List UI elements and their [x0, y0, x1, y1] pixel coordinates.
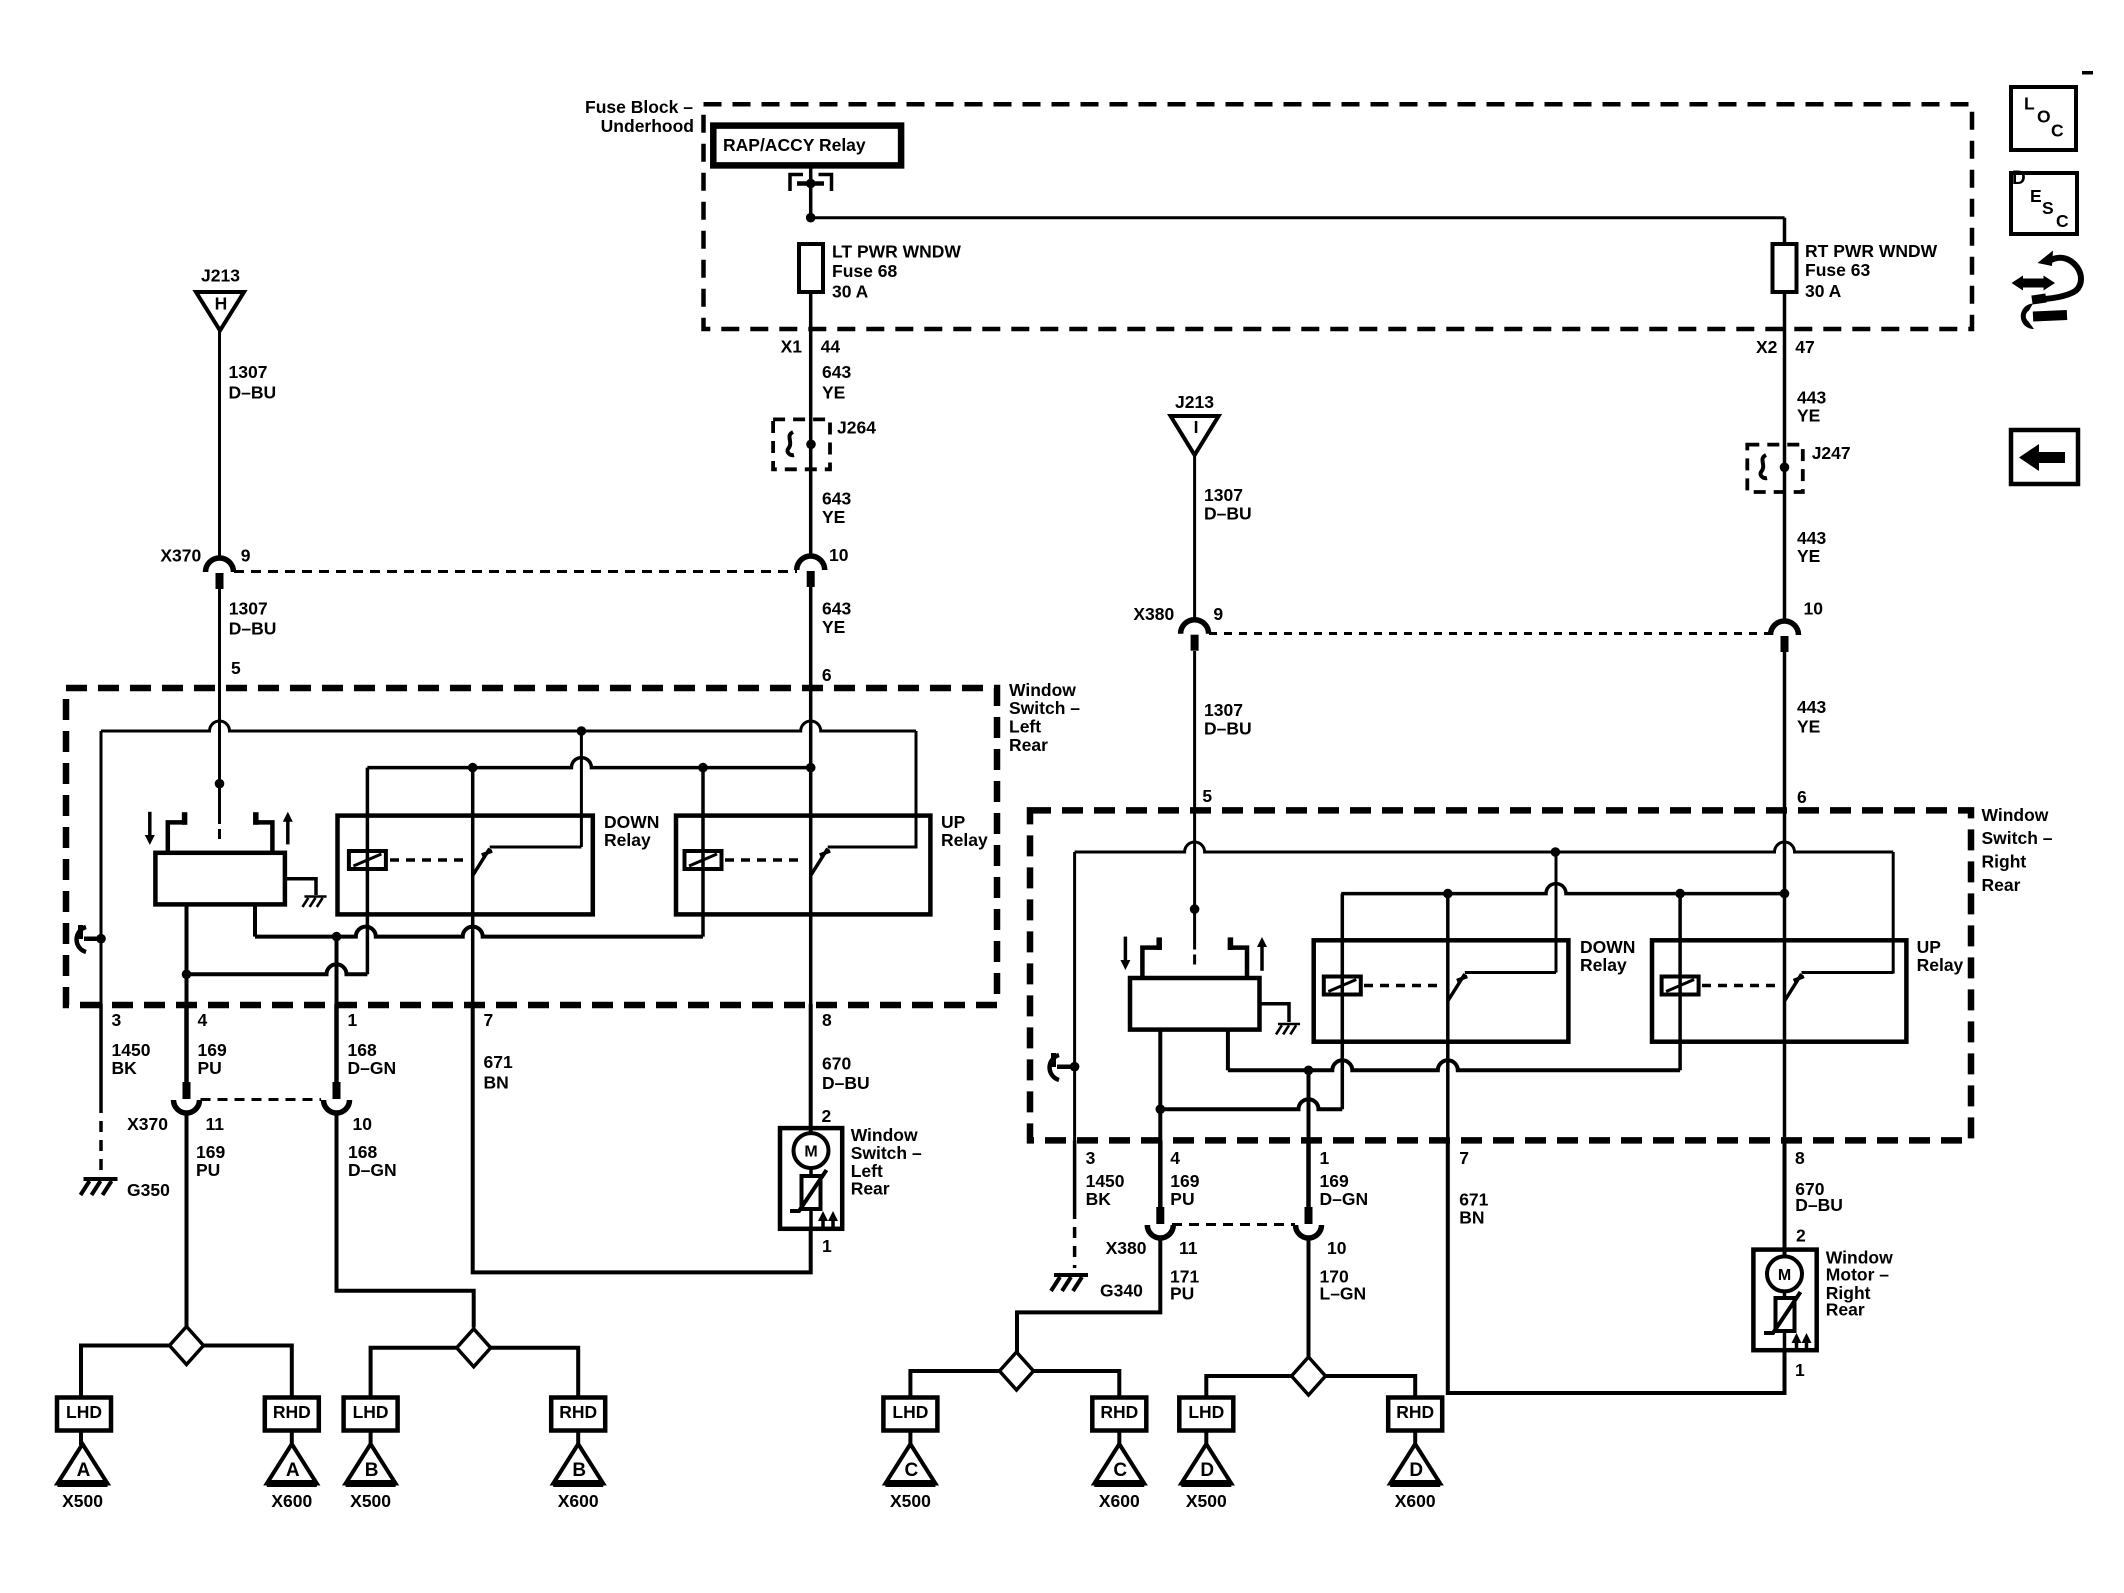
svg-text:B: B — [365, 1460, 379, 1481]
RHD box A — [265, 1398, 319, 1431]
svg-text:Relay: Relay — [604, 830, 651, 850]
svg-text:C: C — [1113, 1460, 1127, 1481]
svg-text:D–BU: D–BU — [229, 619, 277, 639]
svg-text:BK: BK — [1086, 1189, 1112, 1209]
switch ground link right — [1260, 1004, 1290, 1022]
svg-text:C: C — [2056, 211, 2069, 231]
up relay arm left — [811, 849, 831, 876]
svg-text:671: 671 — [1459, 1189, 1488, 1209]
junction dots second bus — [468, 763, 478, 773]
down relay arm link right — [1465, 971, 1556, 974]
down relay actuating dash left — [390, 858, 464, 862]
svg-text:D: D — [2012, 168, 2026, 189]
up relay common riser right — [1892, 852, 1895, 974]
fuse 63 RT PWR WNDW — [1773, 244, 1797, 292]
triangle D X500 — [1181, 1444, 1231, 1484]
window motor right rear — [1753, 1250, 1816, 1351]
down relay box left — [338, 816, 593, 915]
svg-text:X380: X380 — [1106, 1238, 1147, 1258]
svg-text:Switch –: Switch – — [1009, 698, 1080, 718]
svg-text:Rear: Rear — [1982, 875, 2021, 895]
svg-text:Motor –: Motor – — [1826, 1265, 1889, 1285]
svg-text:D–BU: D–BU — [1204, 719, 1252, 739]
svg-text:D–BU: D–BU — [1795, 1195, 1843, 1215]
dashed link X370 11-10 — [201, 1098, 322, 1101]
svg-text:4: 4 — [1170, 1148, 1180, 1168]
svg-text:J264: J264 — [837, 418, 876, 438]
svg-text:E: E — [2030, 186, 2042, 206]
down relay coil wire left — [366, 768, 370, 975]
pin4 to down coil bus right — [1160, 1099, 1342, 1109]
up relay common riser left — [915, 731, 918, 849]
RHD box B — [551, 1398, 605, 1431]
junction dots second bus right — [1443, 889, 1453, 899]
svg-text:11: 11 — [1179, 1238, 1198, 1258]
splice B right branch — [491, 1348, 579, 1398]
pin4 to down coil bus left — [187, 964, 368, 974]
window motor left rear — [780, 1128, 842, 1229]
wire 168 D-GN to splice B — [337, 1113, 474, 1328]
wire 643 YE from fuse 68 — [809, 292, 813, 556]
svg-text:169: 169 — [196, 1142, 225, 1162]
svg-text:10: 10 — [1804, 598, 1824, 618]
down relay box right — [1314, 940, 1569, 1041]
wire 171 PU to splice C — [1017, 1238, 1160, 1353]
svg-text:Rear: Rear — [1826, 1300, 1865, 1320]
wire 1450 BK below right box — [1073, 1141, 1077, 1209]
connector X380 pin 10 — [1296, 1225, 1322, 1238]
svg-text:M: M — [1778, 1267, 1791, 1284]
left box second bus wire — [367, 758, 810, 768]
svg-text:RHD: RHD — [1396, 1402, 1434, 1422]
up relay coil wire left — [701, 768, 705, 937]
svg-text:Left: Left — [1009, 717, 1041, 737]
LHD box B — [344, 1398, 398, 1431]
svg-text:LHD: LHD — [892, 1402, 928, 1422]
svg-text:LT PWR WNDW: LT PWR WNDW — [832, 242, 961, 262]
up relay box right — [1652, 940, 1906, 1041]
svg-text:G340: G340 — [1100, 1281, 1143, 1301]
wire 1 vertical left — [335, 937, 339, 1004]
svg-text:5: 5 — [231, 658, 241, 678]
switch output pin4 right — [1158, 1030, 1162, 1141]
svg-text:X600: X600 — [1099, 1491, 1140, 1511]
connector X370 pin 11 — [174, 1100, 200, 1113]
dashed link X370-9 to connector 10 — [234, 570, 797, 573]
down relay arm right — [1448, 974, 1468, 1001]
switch down arrow right — [1124, 937, 1128, 963]
triangle A X500 — [58, 1444, 108, 1484]
switch output bus right box — [1228, 1060, 1680, 1070]
svg-text:9: 9 — [1213, 604, 1223, 624]
down relay arm link left — [490, 846, 582, 849]
svg-text:X380: X380 — [1133, 604, 1174, 624]
wire 1307 D-BU from J213 I — [1193, 455, 1196, 620]
feed wire to right fuse — [811, 216, 1785, 219]
svg-text:1450: 1450 — [112, 1040, 151, 1060]
svg-text:X500: X500 — [1186, 1491, 1227, 1511]
svg-text:Relay: Relay — [941, 830, 988, 850]
svg-text:8: 8 — [1795, 1148, 1805, 1168]
svg-text:A: A — [286, 1460, 300, 1481]
dashed link X380-9 to connector 10 right — [1209, 632, 1771, 635]
switch up arrow left — [286, 819, 290, 845]
splice A left branch — [81, 1346, 170, 1398]
svg-text:B: B — [572, 1460, 586, 1481]
wire from relay to feed node — [809, 165, 813, 217]
window switch body left — [155, 853, 285, 905]
wire 443 YE into right switch box — [1783, 652, 1787, 812]
svg-text:J247: J247 — [1812, 443, 1851, 463]
svg-text:RHD: RHD — [1100, 1402, 1138, 1422]
up relay coil wire right — [1678, 894, 1682, 1071]
svg-text:1: 1 — [822, 1236, 832, 1256]
svg-text:X600: X600 — [271, 1491, 312, 1511]
switch output right leg right box — [1226, 1030, 1230, 1071]
svg-text:D–BU: D–BU — [822, 1073, 870, 1093]
wire 170 L-GN to splice D — [1307, 1238, 1311, 1358]
svg-text:O: O — [2037, 107, 2051, 127]
svg-text:BN: BN — [1459, 1208, 1484, 1228]
down relay arm left — [473, 849, 493, 876]
svg-text:I: I — [1194, 417, 1199, 437]
svg-text:1: 1 — [1795, 1360, 1805, 1380]
svg-text:LHD: LHD — [1188, 1402, 1224, 1422]
svg-text:10: 10 — [829, 545, 849, 565]
right box top bus wire — [1075, 842, 1894, 852]
svg-text:670: 670 — [822, 1054, 851, 1074]
fuse 68 LT PWR WNDW — [799, 244, 823, 292]
svg-text:Relay: Relay — [1917, 955, 1964, 975]
svg-text:PU: PU — [196, 1160, 220, 1180]
down relay coil left — [349, 851, 386, 869]
svg-text:D: D — [1409, 1460, 1423, 1481]
svg-text:10: 10 — [1327, 1238, 1347, 1258]
svg-text:169: 169 — [1320, 1171, 1349, 1191]
feed node junction — [806, 213, 816, 223]
svg-text:7: 7 — [1459, 1148, 1469, 1168]
svg-text:LHD: LHD — [66, 1402, 102, 1422]
svg-text:443: 443 — [1797, 388, 1826, 408]
window switch body right — [1130, 978, 1260, 1030]
RHD box D — [1388, 1398, 1442, 1431]
svg-text:C: C — [2051, 121, 2064, 141]
wire pin3 right vertical — [1073, 852, 1076, 1141]
svg-text:9: 9 — [241, 546, 251, 566]
svg-text:Underhood: Underhood — [601, 116, 694, 136]
down relay coil wire right — [1341, 894, 1345, 1110]
window switch - left rear dashed box — [66, 688, 997, 1005]
junction J247 — [1747, 445, 1803, 492]
svg-text:Fuse Block –: Fuse Block – — [585, 97, 693, 117]
svg-text:2: 2 — [822, 1106, 832, 1126]
svg-text:1307: 1307 — [229, 599, 268, 619]
LHD box A — [57, 1398, 111, 1431]
RAP/ACCY relay contact — [790, 175, 803, 192]
wire 443 YE from fuse 63 — [1783, 292, 1787, 621]
wire 1307 D-BU into left box — [218, 587, 221, 690]
splice A right branch — [204, 1346, 292, 1398]
svg-text:PU: PU — [1170, 1283, 1194, 1303]
wire 1 vertical right — [1307, 1070, 1311, 1140]
wire 169 PU to X370 — [184, 1004, 189, 1083]
svg-text:X500: X500 — [62, 1491, 103, 1511]
svg-text:D–GN: D–GN — [348, 1160, 397, 1180]
svg-text:1307: 1307 — [1204, 485, 1243, 505]
svg-text:30 A: 30 A — [832, 282, 869, 302]
svg-text:D: D — [1200, 1460, 1214, 1481]
triangle B X500 — [346, 1444, 396, 1484]
svg-text:X500: X500 — [350, 1491, 391, 1511]
svg-text:168: 168 — [348, 1040, 377, 1060]
up relay actuating dash right — [1702, 984, 1777, 988]
wire 1307 D-BU into right box — [1193, 651, 1196, 812]
junction dot top bus right — [1551, 847, 1561, 857]
svg-text:D–GN: D–GN — [348, 1058, 397, 1078]
svg-text:1: 1 — [348, 1010, 358, 1030]
svg-text:YE: YE — [822, 383, 845, 403]
junction dot top bus — [577, 726, 587, 736]
svg-text:1450: 1450 — [1086, 1171, 1125, 1191]
svg-text:YE: YE — [822, 617, 845, 637]
dashed link X380 11-10 — [1172, 1223, 1295, 1226]
svg-text:PU: PU — [198, 1058, 222, 1078]
wire 168 D-GN to X370 — [334, 1004, 339, 1083]
svg-text:BK: BK — [112, 1058, 138, 1078]
inline connector on wire 443 — [1771, 621, 1799, 635]
svg-text:A: A — [77, 1460, 91, 1481]
wire 169 PU to X380 — [1158, 1141, 1163, 1211]
svg-text:RHD: RHD — [559, 1402, 597, 1422]
side connector pin 2 right box — [1050, 1055, 1059, 1080]
svg-text:4: 4 — [198, 1010, 208, 1030]
wire 643 YE into left switch box — [809, 587, 813, 690]
svg-text:7: 7 — [484, 1010, 494, 1030]
splice C diamond — [1000, 1352, 1034, 1390]
switch output right leg left box — [253, 904, 257, 936]
svg-text:8: 8 — [822, 1010, 832, 1030]
switch output pin4 left — [185, 904, 189, 1004]
fuse block - underhood dashed box — [704, 104, 1973, 329]
splice A diamond — [170, 1327, 204, 1365]
svg-text:D–BU: D–BU — [1204, 504, 1252, 524]
triangle C X500 — [885, 1444, 935, 1484]
svg-text:44: 44 — [821, 336, 841, 356]
svg-text:Window: Window — [1009, 680, 1076, 700]
svg-text:6: 6 — [822, 665, 832, 685]
svg-text:PU: PU — [1170, 1189, 1194, 1209]
svg-text:YE: YE — [1797, 406, 1820, 426]
ground symbol in right switch — [1278, 1023, 1300, 1026]
svg-text:YE: YE — [822, 507, 845, 527]
motor thermal arrows right — [1795, 1340, 1799, 1348]
wire 670 D-BU to motor right — [1783, 1141, 1787, 1258]
svg-text:UP: UP — [941, 812, 966, 832]
svg-text:X1: X1 — [781, 336, 803, 356]
svg-text:J213: J213 — [201, 265, 240, 285]
svg-text:5: 5 — [1202, 786, 1212, 806]
svg-text:47: 47 — [1795, 337, 1814, 357]
wire 7 vertical left — [471, 768, 475, 1004]
back arrow icon box — [2011, 430, 2078, 484]
up relay box left — [676, 816, 930, 915]
LHD box C — [883, 1398, 937, 1431]
junction J264 — [773, 419, 830, 469]
svg-text:168: 168 — [348, 1142, 377, 1162]
wire 671 BN right run — [1448, 1141, 1785, 1394]
wire 5 actuator right — [1190, 904, 1200, 914]
left box top bus wire — [101, 721, 916, 731]
wire pin3 left vertical — [100, 731, 103, 1004]
down relay actuating dash right — [1364, 984, 1439, 988]
svg-text:X370: X370 — [127, 1114, 168, 1134]
right box second bus wire — [1341, 884, 1784, 894]
svg-text:Relay: Relay — [1580, 955, 1627, 975]
svg-text:X2: X2 — [1756, 337, 1778, 357]
ground G350 — [84, 1177, 118, 1181]
svg-text:6: 6 — [1797, 787, 1807, 807]
svg-text:C: C — [905, 1460, 919, 1481]
svg-text:Right: Right — [1982, 852, 2027, 872]
svg-text:RAP/ACCY Relay: RAP/ACCY Relay — [723, 135, 866, 155]
RAP/ACCY relay box — [713, 126, 901, 166]
svg-text:X600: X600 — [558, 1491, 599, 1511]
svg-text:BN: BN — [484, 1073, 509, 1093]
svg-text:X370: X370 — [160, 546, 201, 566]
svg-text:DOWN: DOWN — [1580, 937, 1635, 957]
svg-text:11: 11 — [206, 1114, 225, 1134]
wire 1307 D-BU from J213 H — [218, 331, 221, 557]
wire 1450 BK below box — [99, 1004, 103, 1102]
svg-text:1307: 1307 — [1204, 700, 1243, 720]
up relay coil right — [1662, 977, 1699, 995]
splice C left branch — [910, 1371, 999, 1398]
splice D left branch — [1206, 1376, 1291, 1398]
svg-text:UP: UP — [1917, 937, 1942, 957]
svg-text:2: 2 — [1796, 1226, 1806, 1246]
ground G340 — [1054, 1273, 1088, 1277]
svg-text:30 A: 30 A — [1805, 281, 1842, 301]
switch down arrow left — [148, 812, 152, 838]
connector X380 pin 11 — [1147, 1225, 1173, 1238]
svg-text:3: 3 — [1086, 1148, 1096, 1168]
motor thermal arrows left — [821, 1218, 825, 1227]
inline connector on wire 643 — [797, 556, 825, 570]
wire 6 to pin 8 vertical left — [809, 690, 813, 1004]
svg-text:L: L — [2024, 94, 2035, 114]
RHD box C — [1092, 1398, 1146, 1431]
svg-text:Rear: Rear — [1009, 735, 1048, 755]
ground symbol in left switch — [304, 895, 326, 898]
splice B diamond — [457, 1329, 491, 1367]
svg-text:Rear: Rear — [851, 1179, 890, 1199]
wire 671 BN left run — [473, 1004, 811, 1272]
svg-text:YE: YE — [1797, 717, 1820, 737]
svg-text:Window: Window — [1982, 805, 2049, 825]
triangle B X600 — [553, 1444, 603, 1484]
svg-text:443: 443 — [1797, 697, 1826, 717]
splice C right branch — [1034, 1371, 1120, 1398]
wire 169 PU to splice A — [185, 1113, 189, 1328]
splice D diamond — [1292, 1357, 1326, 1395]
LHD box D — [1179, 1398, 1233, 1431]
svg-text:643: 643 — [822, 362, 851, 382]
svg-text:M: M — [804, 1144, 817, 1161]
up relay arm link right — [1802, 971, 1894, 974]
svg-text:RT PWR WNDW: RT PWR WNDW — [1805, 241, 1938, 261]
svg-text:10: 10 — [353, 1114, 373, 1134]
window switch - right rear dashed box — [1030, 810, 1971, 1140]
svg-text:D–BU: D–BU — [229, 383, 277, 403]
svg-text:J213: J213 — [1175, 392, 1214, 412]
svg-text:643: 643 — [822, 599, 851, 619]
svg-text:169: 169 — [1170, 1171, 1199, 1191]
svg-text:671: 671 — [484, 1052, 513, 1072]
svg-text:3: 3 — [112, 1010, 122, 1030]
svg-text:1307: 1307 — [229, 362, 268, 382]
switch ground link left — [285, 879, 316, 895]
triangle C X600 — [1094, 1444, 1144, 1484]
page mark — [2082, 71, 2093, 75]
svg-text:D–GN: D–GN — [1320, 1189, 1369, 1209]
svg-text:G350: G350 — [127, 1180, 170, 1200]
svg-text:DOWN: DOWN — [604, 812, 659, 832]
LOC icon box — [2011, 87, 2076, 150]
up relay arm right — [1785, 974, 1805, 1001]
svg-text:Fuse 68: Fuse 68 — [832, 261, 897, 281]
vehicle location icon — [2021, 279, 2045, 288]
connector X370 pin 10 — [324, 1100, 350, 1113]
splice B left branch — [371, 1348, 457, 1398]
svg-text:RHD: RHD — [273, 1402, 311, 1422]
wire 7 vertical right — [1446, 894, 1450, 1141]
svg-text:X500: X500 — [890, 1491, 931, 1511]
wire 169 D-GN to X380 — [1306, 1141, 1311, 1211]
svg-text:H: H — [215, 294, 228, 314]
svg-text:X600: X600 — [1395, 1491, 1436, 1511]
up relay arm link left — [828, 846, 916, 849]
down relay coil right — [1324, 977, 1361, 995]
svg-text:643: 643 — [822, 488, 851, 508]
up relay actuating dash left — [725, 858, 800, 862]
wire 670 D-BU to motor left — [809, 1004, 813, 1134]
svg-text:Fuse 63: Fuse 63 — [1805, 260, 1870, 280]
svg-text:1: 1 — [1320, 1148, 1330, 1168]
triangle D X600 — [1390, 1444, 1440, 1484]
splice D right branch — [1326, 1376, 1416, 1398]
svg-text:L–GN: L–GN — [1320, 1283, 1367, 1303]
svg-text:169: 169 — [198, 1040, 227, 1060]
svg-text:LHD: LHD — [353, 1402, 389, 1422]
triangle A X600 — [267, 1444, 317, 1484]
DESC icon box — [2011, 173, 2077, 234]
wire 5 actuator — [215, 779, 225, 789]
switch output bus left box — [255, 927, 703, 937]
svg-text:S: S — [2042, 198, 2054, 218]
up relay coil left — [685, 851, 722, 869]
svg-text:Switch –: Switch – — [1982, 828, 2053, 848]
svg-text:YE: YE — [1797, 546, 1820, 566]
switch up arrow right — [1260, 944, 1264, 971]
side connector pin 2 left box — [77, 927, 86, 952]
wire 6 to pin 8 vertical right — [1783, 812, 1787, 1141]
